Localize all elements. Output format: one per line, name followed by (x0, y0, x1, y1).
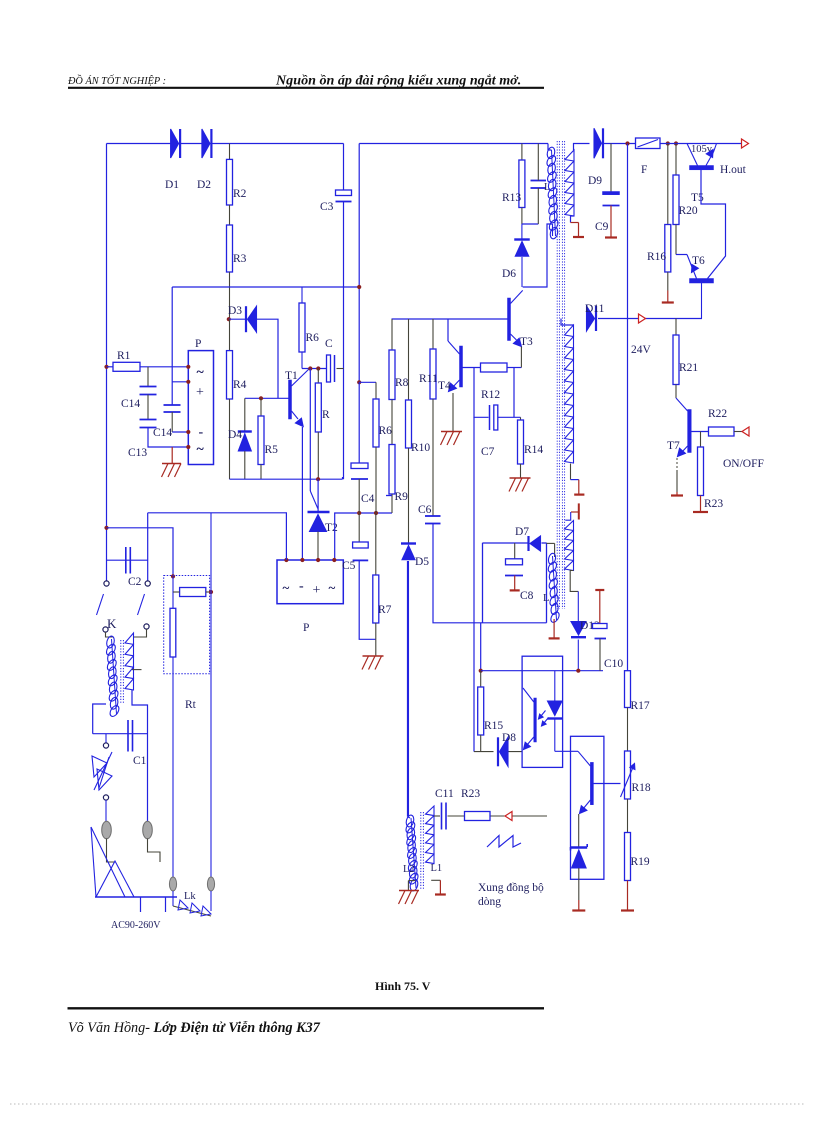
svg-text:K: K (107, 616, 117, 631)
svg-text:ĐỒ ÁN TỐT NGHIỆP :: ĐỒ ÁN TỐT NGHIỆP : (67, 74, 166, 87)
wire x474 drop (473, 417, 475, 751)
svg-text:R22: R22 (708, 408, 727, 420)
node T1 base (259, 396, 263, 400)
plug AC (91, 827, 177, 912)
wire bus671 (481, 670, 603, 672)
winding L (547, 543, 561, 623)
wire R6b tap (359, 381, 376, 383)
node R tap (316, 366, 320, 370)
ground T4 (441, 432, 463, 446)
label C14 (121, 398, 140, 410)
resistor R23r (698, 432, 704, 496)
label P2 minus (299, 579, 304, 594)
resistor R8 (389, 319, 395, 400)
svg-text:D11: D11 (585, 303, 605, 315)
header left title (67, 74, 166, 87)
winding L2 (404, 561, 420, 892)
label D4 (228, 429, 242, 441)
svg-text:D5: D5 (415, 556, 429, 568)
svg-text:R11: R11 (419, 373, 438, 385)
ground R19 (621, 881, 634, 911)
wire K brackets (106, 629, 147, 637)
diode D12 (571, 591, 586, 670)
svg-text:ON/OFF: ON/OFF (723, 458, 764, 470)
node Rt top (171, 574, 175, 578)
svg-text:T5: T5 (691, 192, 704, 204)
wire Rt left (172, 576, 174, 877)
svg-text:R23: R23 (461, 788, 480, 800)
node rail top (625, 141, 629, 145)
transistor T7 (676, 398, 709, 492)
label D12 (580, 620, 600, 632)
wire left rail (106, 144, 108, 582)
capacitor C9 (603, 144, 620, 206)
wire T5-T6 loop (701, 170, 726, 279)
node y513 a (357, 511, 361, 515)
transistor T1 (289, 369, 310, 427)
label R20 (679, 205, 698, 217)
label C8 (520, 590, 534, 602)
label L2 (403, 864, 415, 875)
wire C3 drop (343, 144, 345, 191)
winding L1 (426, 806, 435, 864)
label L (543, 593, 549, 604)
label R2 (233, 188, 247, 200)
node R15 top (479, 669, 483, 673)
svg-text:Rt: Rt (185, 699, 197, 711)
resistor R22 (709, 427, 743, 436)
diode D4 (238, 398, 252, 479)
svg-text:dòng: dòng (478, 896, 501, 908)
node P1 t3 (186, 430, 190, 434)
node P2 t1 (284, 558, 288, 562)
label Lk (184, 891, 196, 902)
label R7 (378, 604, 392, 616)
label ONOFF (723, 458, 764, 470)
wire x359 mid (358, 382, 360, 463)
label P2 (303, 622, 309, 634)
svg-text:C6: C6 (418, 504, 432, 516)
terminal oval R (143, 821, 153, 839)
wire T1 base (245, 397, 289, 399)
label T7 (667, 440, 680, 452)
diode D9 (594, 128, 603, 158)
svg-text:R6: R6 (379, 425, 393, 437)
resistor Rt v (170, 608, 176, 657)
terminal Lk ovalR (207, 877, 214, 891)
opto light arrows (539, 711, 549, 727)
node P2 t4 (332, 558, 336, 562)
thyristor T2 (308, 512, 330, 560)
label D9 (588, 175, 602, 187)
ground R7 (362, 639, 384, 669)
svg-text:R: R (322, 409, 330, 421)
capacitor C3 (336, 190, 352, 202)
capacitor C1 (128, 720, 133, 752)
wire P1 term3 (172, 431, 188, 433)
svg-text:D3: D3 (228, 305, 242, 317)
wire opto out (555, 750, 578, 752)
resistor R (315, 369, 321, 480)
capacitor C13 (140, 420, 189, 448)
svg-text:Lk: Lk (184, 891, 196, 902)
svg-text:~: ~ (283, 580, 290, 595)
resistor R11 (430, 319, 436, 516)
diode D2 (202, 129, 212, 158)
svg-text:R18: R18 (632, 782, 651, 794)
core main (557, 141, 564, 609)
node D3 (227, 317, 231, 321)
transistor T3 (508, 290, 523, 367)
svg-text:C14: C14 (121, 398, 140, 410)
svg-text:-: - (199, 425, 204, 440)
label R17 (631, 700, 650, 712)
svg-text:R3: R3 (233, 253, 247, 265)
label P2 ac1 (283, 580, 290, 595)
label R3 (233, 253, 247, 265)
wire x480 drop (480, 623, 482, 671)
label R6a (306, 332, 320, 344)
node D12 bus (576, 669, 580, 673)
svg-text:Hình 75. V: Hình 75. V (375, 979, 431, 993)
svg-text:L2: L2 (403, 864, 415, 875)
resistor R10 (406, 319, 412, 543)
label sync1 (478, 881, 544, 894)
wire P1 term2 (172, 381, 188, 383)
core L2 (421, 812, 424, 890)
svg-text:D4: D4 (228, 429, 242, 441)
waveform sync (487, 836, 521, 848)
wire C7 loop (474, 368, 521, 418)
breaker (92, 734, 112, 822)
wire T2 gate (310, 369, 318, 509)
svg-text:R14: R14 (524, 444, 543, 456)
ground zener (572, 900, 585, 911)
label R23b (461, 788, 480, 800)
switch K (97, 581, 151, 632)
resistor R23b (465, 812, 491, 821)
label P2 ac2 (329, 580, 336, 595)
capacitor C (327, 355, 335, 382)
svg-text:Võ Văn Hồng- Lớp Điện tử Viễn: Võ Văn Hồng- Lớp Điện tử Viễn thông K37 (68, 1020, 321, 1036)
label P1 ac2 (197, 442, 205, 457)
label D7 (515, 526, 529, 538)
label R1 (117, 350, 131, 362)
label C6 (418, 504, 432, 516)
diode D6 (514, 224, 530, 287)
svg-text:C1: C1 (133, 755, 147, 767)
capacitor C4 (351, 463, 368, 542)
ground T7 (671, 492, 683, 496)
node bus287 end (357, 285, 361, 289)
terminal ONOFF arrow (742, 427, 749, 436)
svg-text:C9: C9 (595, 221, 609, 233)
wire Rt right (210, 513, 212, 878)
node rail 527 (104, 526, 108, 530)
terminal Lk ovalL (169, 877, 176, 891)
ground C8 (510, 576, 520, 591)
label T5 (691, 192, 704, 204)
wire C5 down (359, 560, 376, 639)
wire bus479 (230, 477, 343, 479)
svg-text:R8: R8 (395, 377, 409, 389)
label sync2 (478, 896, 501, 908)
svg-text:D1: D1 (165, 179, 179, 191)
label R11 (419, 373, 438, 385)
wire D6 loop (523, 224, 553, 287)
winding sec A (565, 144, 590, 217)
resistor R9 (389, 400, 395, 514)
resistor R13 (519, 144, 525, 225)
diode D8 (498, 737, 508, 766)
label D1 (165, 179, 179, 191)
label P1 minus (199, 425, 204, 440)
ground L2 (399, 881, 420, 904)
wire C2 row (107, 559, 148, 561)
wire D9-F (603, 143, 636, 145)
capacitor C2 (126, 547, 131, 574)
svg-text:C3: C3 (320, 201, 334, 213)
label P2 plus (313, 583, 321, 598)
wire bus319 (392, 318, 508, 320)
label F (641, 164, 647, 176)
wire 24V (598, 318, 702, 320)
svg-text:R4: R4 (233, 379, 247, 391)
capacitor C5 (353, 542, 369, 560)
svg-text:T1: T1 (285, 370, 298, 382)
svg-text:R13: R13 (502, 192, 521, 204)
ground P1 (162, 447, 182, 477)
resistor R6a (299, 287, 305, 369)
resistor R16 (665, 144, 671, 291)
node R16 top (666, 141, 670, 145)
label R9 (386, 491, 408, 503)
wire R13 corner (522, 223, 538, 225)
node R20 top (674, 141, 678, 145)
label 24V (631, 344, 652, 356)
node T2 gate tap (308, 366, 312, 370)
svg-text:C4: C4 (361, 493, 375, 505)
node x359 R6b (357, 380, 361, 384)
label C10 (604, 658, 623, 670)
svg-text:R19: R19 (631, 856, 650, 868)
wire C11 row (434, 815, 547, 817)
label R6b (379, 425, 393, 437)
label D2 (197, 179, 211, 191)
svg-text:L1: L1 (431, 863, 443, 874)
header underline (68, 87, 544, 89)
ground secC top (565, 503, 579, 520)
wire D3 right (257, 319, 279, 398)
wire F-Hout (660, 143, 742, 145)
svg-text:C8: C8 (520, 590, 534, 602)
wire filter tap (132, 669, 142, 671)
label R8 (395, 377, 409, 389)
svg-text:P: P (195, 338, 201, 350)
inductor Lk (173, 891, 211, 916)
label R18 (632, 782, 651, 794)
capacitor C14b (164, 405, 181, 432)
diode D11 (587, 306, 597, 331)
svg-text:R16: R16 (647, 251, 666, 263)
terminal H.out (742, 139, 749, 148)
label P1 plus (196, 385, 204, 400)
label R10 (411, 442, 430, 454)
label AC (111, 920, 161, 931)
bottom dotted rule (10, 1103, 806, 1105)
capacitor C10 (593, 590, 608, 671)
wire secA gnd (571, 216, 585, 237)
svg-text:R5: R5 (265, 444, 279, 456)
label R12 (481, 389, 500, 401)
winding filter R (125, 633, 134, 690)
bridge P1 (188, 351, 213, 465)
box D7C8 (483, 543, 547, 623)
wire T2 anode (317, 479, 319, 511)
wire collector node (302, 368, 344, 370)
svg-text:R10: R10 (411, 442, 430, 454)
winding primary (545, 144, 560, 240)
diode D7 (529, 536, 541, 551)
resistor R18 (621, 708, 635, 833)
svg-text:C13: C13 (128, 447, 147, 459)
svg-text:-: - (299, 579, 304, 594)
svg-text:D8: D8 (502, 732, 516, 744)
svg-text:C11: C11 (435, 788, 454, 800)
svg-text:R21: R21 (679, 362, 698, 374)
label R4 (233, 379, 247, 391)
wire P2 t1 up (148, 513, 287, 560)
capacitor C14 (140, 367, 157, 420)
wire secB gnd (571, 464, 585, 495)
ground L (549, 619, 560, 638)
label K (107, 616, 117, 631)
ground L1 (431, 880, 446, 894)
label C9 (595, 221, 609, 233)
resistor R4 (227, 319, 233, 479)
diode D5 (401, 544, 416, 817)
svg-text:P: P (303, 622, 309, 634)
svg-text:R12: R12 (481, 389, 500, 401)
capacitor C7 (490, 405, 498, 430)
resistor Rt h (173, 588, 211, 597)
svg-text:Nguồn ồn áp đài rộng kiểu xung: Nguồn ồn áp đài rộng kiểu xung ngắt mở. (275, 73, 521, 89)
label R (322, 409, 330, 421)
label C11 (435, 788, 454, 800)
wire x172 drop (171, 287, 173, 405)
svg-text:R7: R7 (378, 604, 392, 616)
node R1 left (104, 365, 108, 369)
wire y527 (107, 528, 174, 577)
wire filter botR (132, 690, 148, 822)
terminal sync arrow (505, 812, 512, 821)
node P1 t2 (186, 380, 190, 384)
capacitor C11 (442, 803, 447, 830)
svg-text:Xung đồng bộ: Xung đồng bộ (478, 881, 544, 894)
capacitor Cp (531, 144, 547, 225)
label T3 (520, 336, 533, 348)
wire R18 tap (620, 783, 622, 785)
label P1 ac1 (197, 365, 205, 380)
label R15 (484, 720, 503, 732)
resistor R1 (107, 362, 189, 371)
label R23r (704, 498, 723, 510)
label C5 (342, 560, 356, 572)
wire x147 drop (147, 513, 149, 581)
label R13 (502, 192, 521, 204)
resistor R19 (625, 833, 631, 881)
resistor R20 (673, 144, 679, 255)
wire bus287 (172, 286, 359, 288)
svg-text:H.out: H.out (720, 164, 747, 176)
node Rt right (209, 590, 213, 594)
winding sec C (565, 521, 574, 571)
label L cap (544, 182, 550, 193)
resistor R21 (673, 319, 679, 399)
wire T1 emitter (301, 427, 303, 560)
transistor T4 (448, 319, 463, 432)
transistor T6 (690, 265, 714, 319)
resistor R6b (373, 382, 379, 513)
node P2 t3 (316, 558, 320, 562)
svg-text:+: + (313, 583, 321, 598)
label T2 (325, 522, 338, 534)
svg-text:T3: T3 (520, 336, 533, 348)
svg-text:+: + (196, 385, 204, 400)
box T8 (571, 736, 604, 879)
label T4 (438, 380, 451, 392)
svg-text:D6: D6 (502, 268, 516, 280)
capacitor C6 (425, 516, 547, 623)
header main title (275, 73, 521, 89)
svg-text:R6: R6 (306, 332, 320, 344)
label D3 (228, 305, 242, 317)
resistor R7 (373, 513, 379, 639)
label R16 (647, 251, 666, 263)
label D11 (585, 303, 605, 315)
label R5 (265, 444, 279, 456)
resistor R3 (227, 205, 233, 319)
svg-text:R17: R17 (631, 700, 650, 712)
label D5 (415, 556, 429, 568)
winding filter L (105, 635, 121, 718)
caption (375, 979, 431, 993)
svg-text:R2: R2 (233, 188, 247, 200)
winding sec B (561, 319, 574, 464)
core filter (121, 640, 124, 704)
wire C3 to bus (343, 202, 345, 480)
label R22 (708, 408, 727, 420)
label Rt (185, 699, 197, 711)
wire main rail (627, 144, 629, 671)
transistor T8 (578, 751, 621, 847)
svg-text:R15: R15 (484, 720, 503, 732)
svg-text:D2: D2 (197, 179, 211, 191)
resistor R14 (518, 417, 524, 477)
optocoupler U1 (522, 656, 563, 767)
resistor R2 (227, 144, 233, 206)
node P1 t1 (186, 365, 190, 369)
transistor T5 (687, 144, 717, 170)
label C1 (133, 755, 147, 767)
ground R16 (662, 291, 674, 303)
label P1 (195, 338, 201, 350)
wire top B (359, 143, 548, 145)
svg-text:C: C (325, 338, 333, 350)
svg-text:T7: T7 (667, 440, 680, 452)
svg-text:C5: C5 (342, 560, 356, 572)
label R19 (631, 856, 650, 868)
